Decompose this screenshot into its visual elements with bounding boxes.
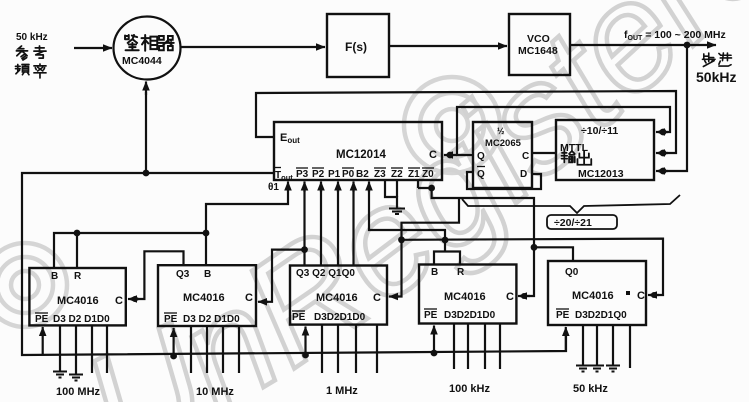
wire Z3 Z2 to ground — [385, 180, 397, 209]
wire theta1 bus to counter1 B R counter2 B — [54, 233, 206, 268]
svg-text:Q: Q — [477, 151, 485, 162]
counter control MC12014 — [274, 122, 442, 180]
svg-text:Q: Q — [477, 169, 485, 180]
counter5 D3 ground — [582, 325, 584, 365]
node PE bus dots — [170, 353, 177, 360]
wire bus1 — [402, 239, 664, 295]
svg-text:Z1: Z1 — [408, 169, 420, 180]
svg-text:D3D2D1D0: D3D2D1D0 — [314, 312, 366, 323]
filter F(s) — [327, 14, 389, 77]
svg-text:MC4016: MC4016 — [57, 295, 99, 307]
prescaler MC12013 — [556, 120, 654, 180]
node Q0 branch — [531, 244, 538, 251]
svg-text:100 MHz: 100 MHz — [56, 386, 101, 398]
svg-text:B2: B2 — [356, 169, 369, 180]
watermark rings — [0, 77, 500, 327]
svg-text:P2: P2 — [312, 169, 325, 180]
counter3 MC4016 — [290, 266, 387, 325]
counter4 D pins — [453, 324, 455, 370]
svg-text:MC4016: MC4016 — [316, 292, 358, 304]
svg-text:MC12014: MC12014 — [336, 149, 386, 161]
svg-text:PE: PE — [35, 314, 49, 325]
svg-text:P1: P1 — [328, 169, 341, 180]
wire F(s) to VCO — [389, 45, 507, 47]
node MC12014 C — [447, 152, 454, 159]
counter1 D2 ground — [75, 325, 77, 374]
svg-text:1 MHz: 1 MHz — [326, 385, 358, 397]
svg-text:50 kHz: 50 kHz — [573, 383, 608, 395]
svg-text:Z0: Z0 — [422, 169, 434, 180]
svg-text:MC2065: MC2065 — [485, 138, 522, 149]
svg-text:MC4044: MC4044 — [122, 55, 162, 67]
label step chinese — [702, 53, 715, 67]
counter2 MC4016 — [158, 265, 256, 326]
svg-text:P0: P0 — [342, 169, 355, 180]
svg-text:C: C — [506, 291, 514, 303]
phase detector MC4044 — [114, 17, 181, 80]
node B2 bus1 — [442, 237, 449, 244]
wire PE arrow counter5 — [565, 327, 567, 351]
ground Z — [389, 209, 405, 215]
svg-text:÷20/÷21: ÷20/÷21 — [554, 217, 592, 229]
svg-text:50kHz: 50kHz — [696, 69, 736, 85]
counter5 MC4016 — [548, 261, 646, 325]
wire counter3 C — [392, 240, 402, 297]
node counter4 C — [521, 293, 527, 299]
svg-text:D3 D2 D1D0: D3 D2 D1D0 — [183, 314, 240, 325]
svg-text:R: R — [74, 271, 82, 282]
wire Eout loop to MC12013 — [256, 91, 676, 153]
svg-text:MC1648: MC1648 — [518, 45, 558, 57]
node MC12013 pin dots — [660, 129, 667, 136]
wire B2 pin — [369, 188, 445, 252]
node feedback-MC4044 — [143, 170, 150, 177]
svg-text:100 kHz: 100 kHz — [449, 383, 490, 395]
svg-text:MC4016: MC4016 — [444, 291, 486, 303]
svg-text:Z3: Z3 — [374, 169, 386, 180]
svg-text:VCO: VCO — [527, 33, 550, 45]
svg-text:P3: P3 — [296, 169, 309, 180]
svg-text:÷10/÷11: ÷10/÷11 — [581, 125, 618, 137]
node Z0 tie — [428, 185, 435, 192]
box divide label — [547, 215, 617, 229]
svg-text:50 kHz: 50 kHz — [16, 32, 48, 43]
wire branch to bus1 — [402, 198, 460, 240]
wire PE arrow counter3 — [304, 327, 306, 356]
wire MC4044 to F(s) — [181, 46, 325, 48]
svg-text:PE: PE — [424, 310, 438, 321]
svg-text:D3D2D1D0: D3D2D1D0 — [444, 310, 496, 321]
svg-text:D: D — [520, 169, 527, 180]
wire MC2065 Q to MC12014 C — [457, 107, 670, 155]
wire P1 pin from counter3 Q1 — [337, 188, 339, 266]
label phase detector chinese — [125, 35, 139, 50]
svg-text:Q0: Q0 — [565, 267, 579, 278]
svg-text:C: C — [373, 292, 381, 304]
svg-text:B: B — [431, 267, 438, 278]
node counter3 Q3 tap — [301, 246, 308, 253]
node theta1 bus — [74, 230, 81, 237]
counter3 D pins — [321, 325, 323, 373]
wire P0 pin from counter3 Q0 — [352, 188, 354, 266]
svg-text:R: R — [457, 267, 465, 278]
counter4 MC4016 — [419, 265, 516, 324]
svg-text:C: C — [429, 149, 437, 161]
svg-text:Q3: Q3 — [176, 269, 190, 280]
svg-text:C: C — [115, 295, 123, 307]
wire PE arrow counter1 — [42, 327, 44, 355]
wire counter1 C from counter2 Q3 — [133, 251, 184, 299]
svg-text:C: C — [637, 290, 645, 302]
svg-text:MC4016: MC4016 — [572, 290, 614, 302]
wire VCO to MC12013 — [659, 45, 687, 171]
svg-text:PE: PE — [164, 314, 178, 325]
wire PE arrow counter2 — [173, 328, 175, 356]
svg-text:Z2: Z2 — [391, 169, 403, 180]
svg-text:PE: PE — [292, 312, 306, 323]
wire P3 pin from counter3 Q3 — [303, 188, 305, 266]
node counter1 C — [132, 296, 138, 302]
wire reference input — [74, 47, 112, 49]
svg-text:D3D2D1Q0: D3D2D1Q0 — [575, 310, 627, 321]
brace divide-by-20-21 — [462, 195, 680, 213]
wire Z1 Z0 net to counter5 Q0 and counter4 C — [417, 180, 419, 188]
node VCO output — [684, 42, 691, 49]
wire theta1 pin — [206, 188, 288, 233]
wire Tout feedback horizontal — [22, 173, 566, 355]
wire VCO output — [570, 44, 716, 46]
counter1 D1 D0 pins — [91, 325, 93, 373]
node counter5 C — [651, 292, 657, 298]
counter1 MC4016 — [29, 268, 125, 325]
svg-text:MC4016: MC4016 — [183, 292, 225, 304]
svg-text:C: C — [245, 292, 253, 304]
counter5 D1 ground — [612, 325, 614, 365]
counter1 D3 ground — [59, 325, 61, 371]
counter2 D pins — [190, 326, 192, 373]
counter5 D2 ground — [596, 325, 598, 365]
wire MC2065 C to MC12013 — [532, 152, 556, 154]
label reference frequency chinese — [16, 46, 27, 60]
flip-flop MC2065 — [473, 122, 532, 188]
svg-text:B: B — [204, 269, 211, 280]
node bus1 left — [398, 236, 405, 243]
wire counter2 C from counter3 Q3 — [262, 250, 305, 302]
svg-text:C: C — [522, 151, 529, 162]
wire Qbar to D loop — [467, 172, 541, 189]
wire PE arrow counter4 — [433, 326, 435, 354]
svg-text:½: ½ — [497, 126, 505, 136]
svg-text:MC12013: MC12013 — [578, 168, 624, 180]
svg-text:B: B — [51, 271, 58, 282]
svg-text:10 MHz: 10 MHz — [196, 386, 234, 398]
counter5 D0 pin — [629, 325, 631, 368]
wire counter4 B R — [434, 252, 460, 265]
wire P2 pin from counter3 Q2 — [320, 188, 322, 266]
svg-text:Q3 Q2 Q1Q0: Q3 Q2 Q1Q0 — [296, 268, 355, 279]
svg-text:θ1: θ1 — [268, 182, 279, 193]
VCO MC1648 — [509, 14, 570, 75]
svg-text:PE: PE — [556, 310, 570, 321]
svg-text:D3 D2 D1D0: D3 D2 D1D0 — [53, 314, 110, 325]
svg-text:F(s): F(s) — [345, 40, 367, 54]
wire MC4044 feedback from below — [145, 92, 147, 173]
